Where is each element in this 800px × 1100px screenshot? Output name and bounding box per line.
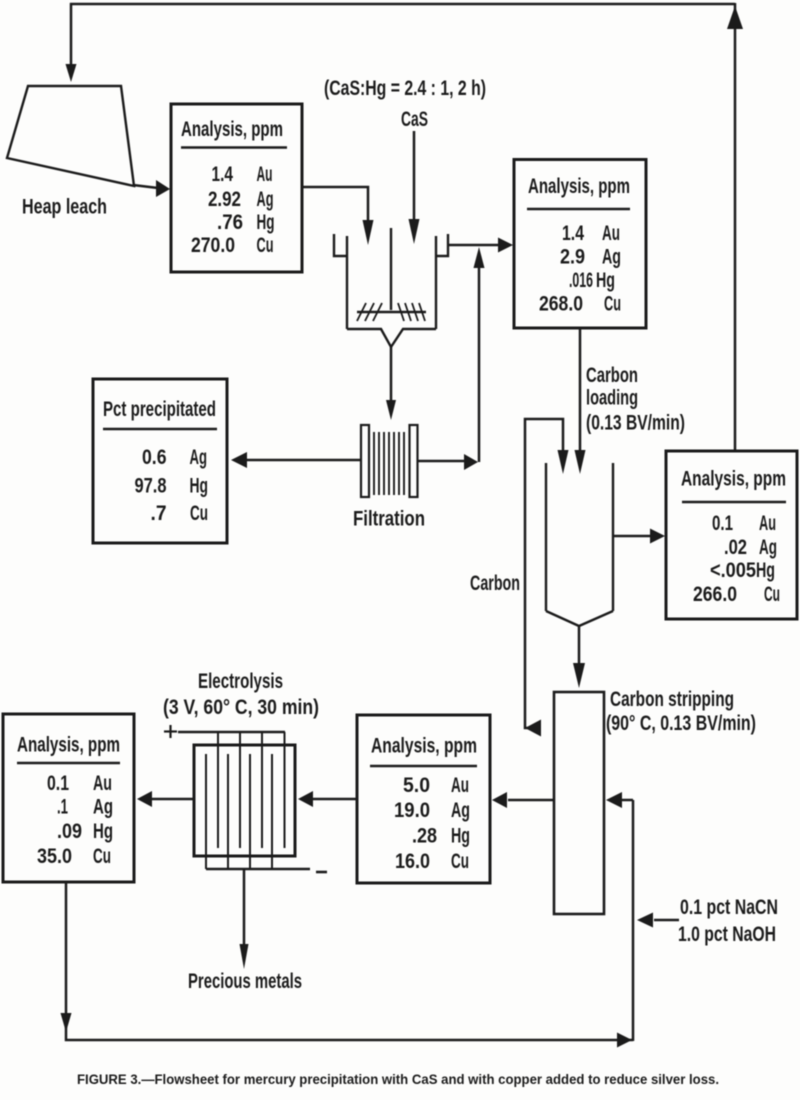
electrolysis cell U1 (164, 725, 327, 872)
analysis box 3 (666, 451, 797, 619)
reactor tank (334, 228, 448, 347)
pct precipitated box (93, 379, 227, 543)
svg-text:0.1: 0.1 (47, 771, 69, 795)
svg-text:1.4: 1.4 (212, 162, 234, 186)
wire precious metals (243, 869, 246, 946)
wire strip feed into column (622, 799, 633, 802)
svg-text:.09: .09 (57, 819, 82, 843)
wire filtration riser horizontal (418, 460, 466, 463)
svg-text:Au: Au (602, 221, 620, 245)
wire strip feed riser (632, 800, 635, 1041)
arrow filtration riser up (474, 247, 485, 268)
svg-text:Hg: Hg (756, 558, 775, 582)
svg-text:Analysis, ppm: Analysis, ppm (681, 467, 786, 491)
svg-text:2.92: 2.92 (208, 187, 241, 211)
wire recycle right riser (734, 3, 737, 451)
svg-text:.7: .7 (151, 501, 167, 525)
svg-text:loading: loading (586, 386, 638, 410)
wire heap outflow (133, 185, 158, 188)
svg-text:97.8: 97.8 (135, 474, 167, 498)
svg-text:Au: Au (759, 511, 776, 535)
svg-text:Filtration: Filtration (353, 507, 425, 531)
wire CaS feed (413, 131, 416, 232)
arrow NaCN into riser (637, 913, 653, 928)
svg-text:1.0 pct NaOH: 1.0 pct NaOH (678, 922, 776, 946)
wire riser vertical (478, 264, 481, 462)
svg-text:Cu: Cu (451, 849, 469, 873)
wire reactor outlet (448, 244, 500, 247)
wire top recycle horizontal (70, 3, 735, 6)
heap leach vessel (7, 86, 134, 186)
arrow loading feed from box2 (575, 450, 586, 474)
arrow carbon recycle into loading column (558, 450, 569, 474)
svg-text:.016: .016 (569, 268, 593, 292)
arrow into reactor from box1 (363, 220, 374, 245)
svg-text:Cu: Cu (604, 292, 621, 316)
arrow into pct box (231, 452, 247, 468)
svg-text:CaS: CaS (401, 107, 428, 131)
svg-text:Electrolysis: Electrolysis (198, 669, 283, 693)
svg-text:Ag: Ag (257, 187, 274, 211)
svg-text:Au: Au (451, 773, 469, 797)
svg-text:(CaS:Hg = 2.4 : 1, 2 h): (CaS:Hg = 2.4 : 1, 2 h) (324, 76, 486, 100)
svg-text:Carbon: Carbon (470, 571, 520, 595)
svg-text:35.0: 35.0 (37, 844, 72, 868)
arrow carbon recycle out of stripping (525, 720, 541, 737)
svg-text:Heap leach: Heap leach (22, 195, 107, 219)
svg-text:Analysis, ppm: Analysis, ppm (181, 117, 283, 141)
minus terminal (316, 871, 327, 874)
wire box4 to electrolysis (312, 798, 357, 801)
analysis box 5 (3, 714, 134, 882)
wire electrolysis to box5 (151, 798, 194, 801)
svg-text:Ag: Ag (759, 535, 777, 559)
wire loading column to box3 (613, 535, 653, 538)
svg-text:Carbon: Carbon (586, 363, 638, 387)
svg-text:Analysis, ppm: Analysis, ppm (371, 734, 477, 758)
svg-text:0.1 pct NaCN: 0.1 pct NaCN (680, 895, 778, 919)
plus terminal (164, 725, 177, 738)
analysis box 4 (357, 715, 490, 883)
svg-text:Precious metals: Precious metals (188, 969, 302, 993)
arrow into stripping right side (606, 792, 622, 808)
svg-text:<.005: <.005 (710, 558, 756, 582)
wire reactor underflow (390, 347, 393, 402)
svg-text:266.0: 266.0 (693, 582, 737, 606)
svg-text:FIGURE 3.—Flowsheet for mercur: FIGURE 3.—Flowsheet for mercury precipit… (77, 1072, 719, 1087)
wire carbon recycle (525, 419, 563, 728)
arrow into filtration (386, 400, 396, 420)
svg-text:(3 V, 60° C, 30 min): (3 V, 60° C, 30 min) (163, 695, 319, 719)
svg-text:Hg: Hg (190, 474, 209, 498)
wire box1 to reactor (302, 187, 368, 232)
svg-text:Carbon stripping: Carbon stripping (610, 687, 734, 711)
svg-text:Hg: Hg (596, 268, 615, 292)
svg-text:5.0: 5.0 (403, 773, 430, 797)
svg-text:Hg: Hg (257, 210, 275, 234)
svg-text:Au: Au (93, 771, 112, 795)
arrow precious metals (240, 944, 249, 969)
svg-text:Ag: Ag (93, 795, 113, 819)
arrow bottom recycle right (617, 1033, 632, 1048)
svg-text:268.0: 268.0 (539, 292, 583, 316)
wire stripping to box4 (508, 799, 554, 802)
svg-text:.76: .76 (217, 210, 243, 234)
svg-text:Cu: Cu (190, 501, 208, 525)
wire NaCN feed (654, 919, 679, 922)
svg-text:16.0: 16.0 (395, 849, 430, 873)
arrow recycle up (727, 6, 743, 29)
arrow into analysis box 2 (498, 238, 513, 253)
svg-text:.02: .02 (724, 535, 747, 559)
filtration unit (361, 425, 418, 497)
svg-text:Cu: Cu (93, 844, 111, 868)
svg-text:Cu: Cu (764, 582, 780, 606)
svg-text:Ag: Ag (602, 245, 621, 269)
svg-text:0.1: 0.1 (712, 511, 733, 535)
arrow bottom recycle down (61, 1013, 72, 1032)
arrow into analysis box 1 (156, 180, 170, 197)
svg-text:Analysis, ppm: Analysis, ppm (528, 174, 630, 198)
svg-text:Analysis, ppm: Analysis, ppm (17, 733, 120, 757)
svg-text:Ag: Ag (451, 798, 470, 822)
svg-text:(0.13 BV/min): (0.13 BV/min) (586, 411, 685, 435)
wire top recycle left drop (70, 3, 73, 69)
svg-text:0.6: 0.6 (142, 445, 167, 469)
svg-text:(90° C, 0.13 BV/min): (90° C, 0.13 BV/min) (606, 711, 756, 735)
svg-text:Cu: Cu (257, 233, 274, 257)
arrow into stripping column (573, 663, 585, 688)
wire bottom recycle (66, 882, 633, 1040)
svg-text:270.0: 270.0 (191, 233, 235, 257)
svg-text:2.9: 2.9 (560, 245, 585, 269)
arrow into analysis box 3 (650, 529, 665, 544)
carbon loading column (546, 463, 613, 626)
arrow into electrolysis (298, 791, 313, 807)
svg-text:Ag: Ag (190, 445, 208, 469)
svg-text:Hg: Hg (93, 819, 113, 843)
analysis box 1 (171, 104, 302, 272)
svg-text:.28: .28 (412, 824, 437, 848)
svg-text:Hg: Hg (451, 824, 470, 848)
svg-text:1.4: 1.4 (562, 221, 584, 245)
svg-text:19.0: 19.0 (394, 798, 430, 822)
wire loading underflow (578, 626, 581, 666)
svg-text:.1: .1 (57, 795, 68, 819)
arrow filtration riser right (464, 454, 478, 470)
arrow into analysis box 5 (137, 791, 152, 807)
arrow into heap leach (66, 64, 77, 82)
wire box2 to loading column (579, 328, 582, 461)
carbon stripping column (554, 692, 604, 914)
arrow CaS into reactor (409, 219, 420, 244)
svg-text:Pct precipitated: Pct precipitated (103, 397, 216, 421)
wire filtration to pct box (247, 459, 361, 462)
arrow into analysis box 4 (492, 792, 507, 808)
svg-text:Au: Au (257, 162, 273, 186)
analysis box 2 (514, 160, 646, 329)
